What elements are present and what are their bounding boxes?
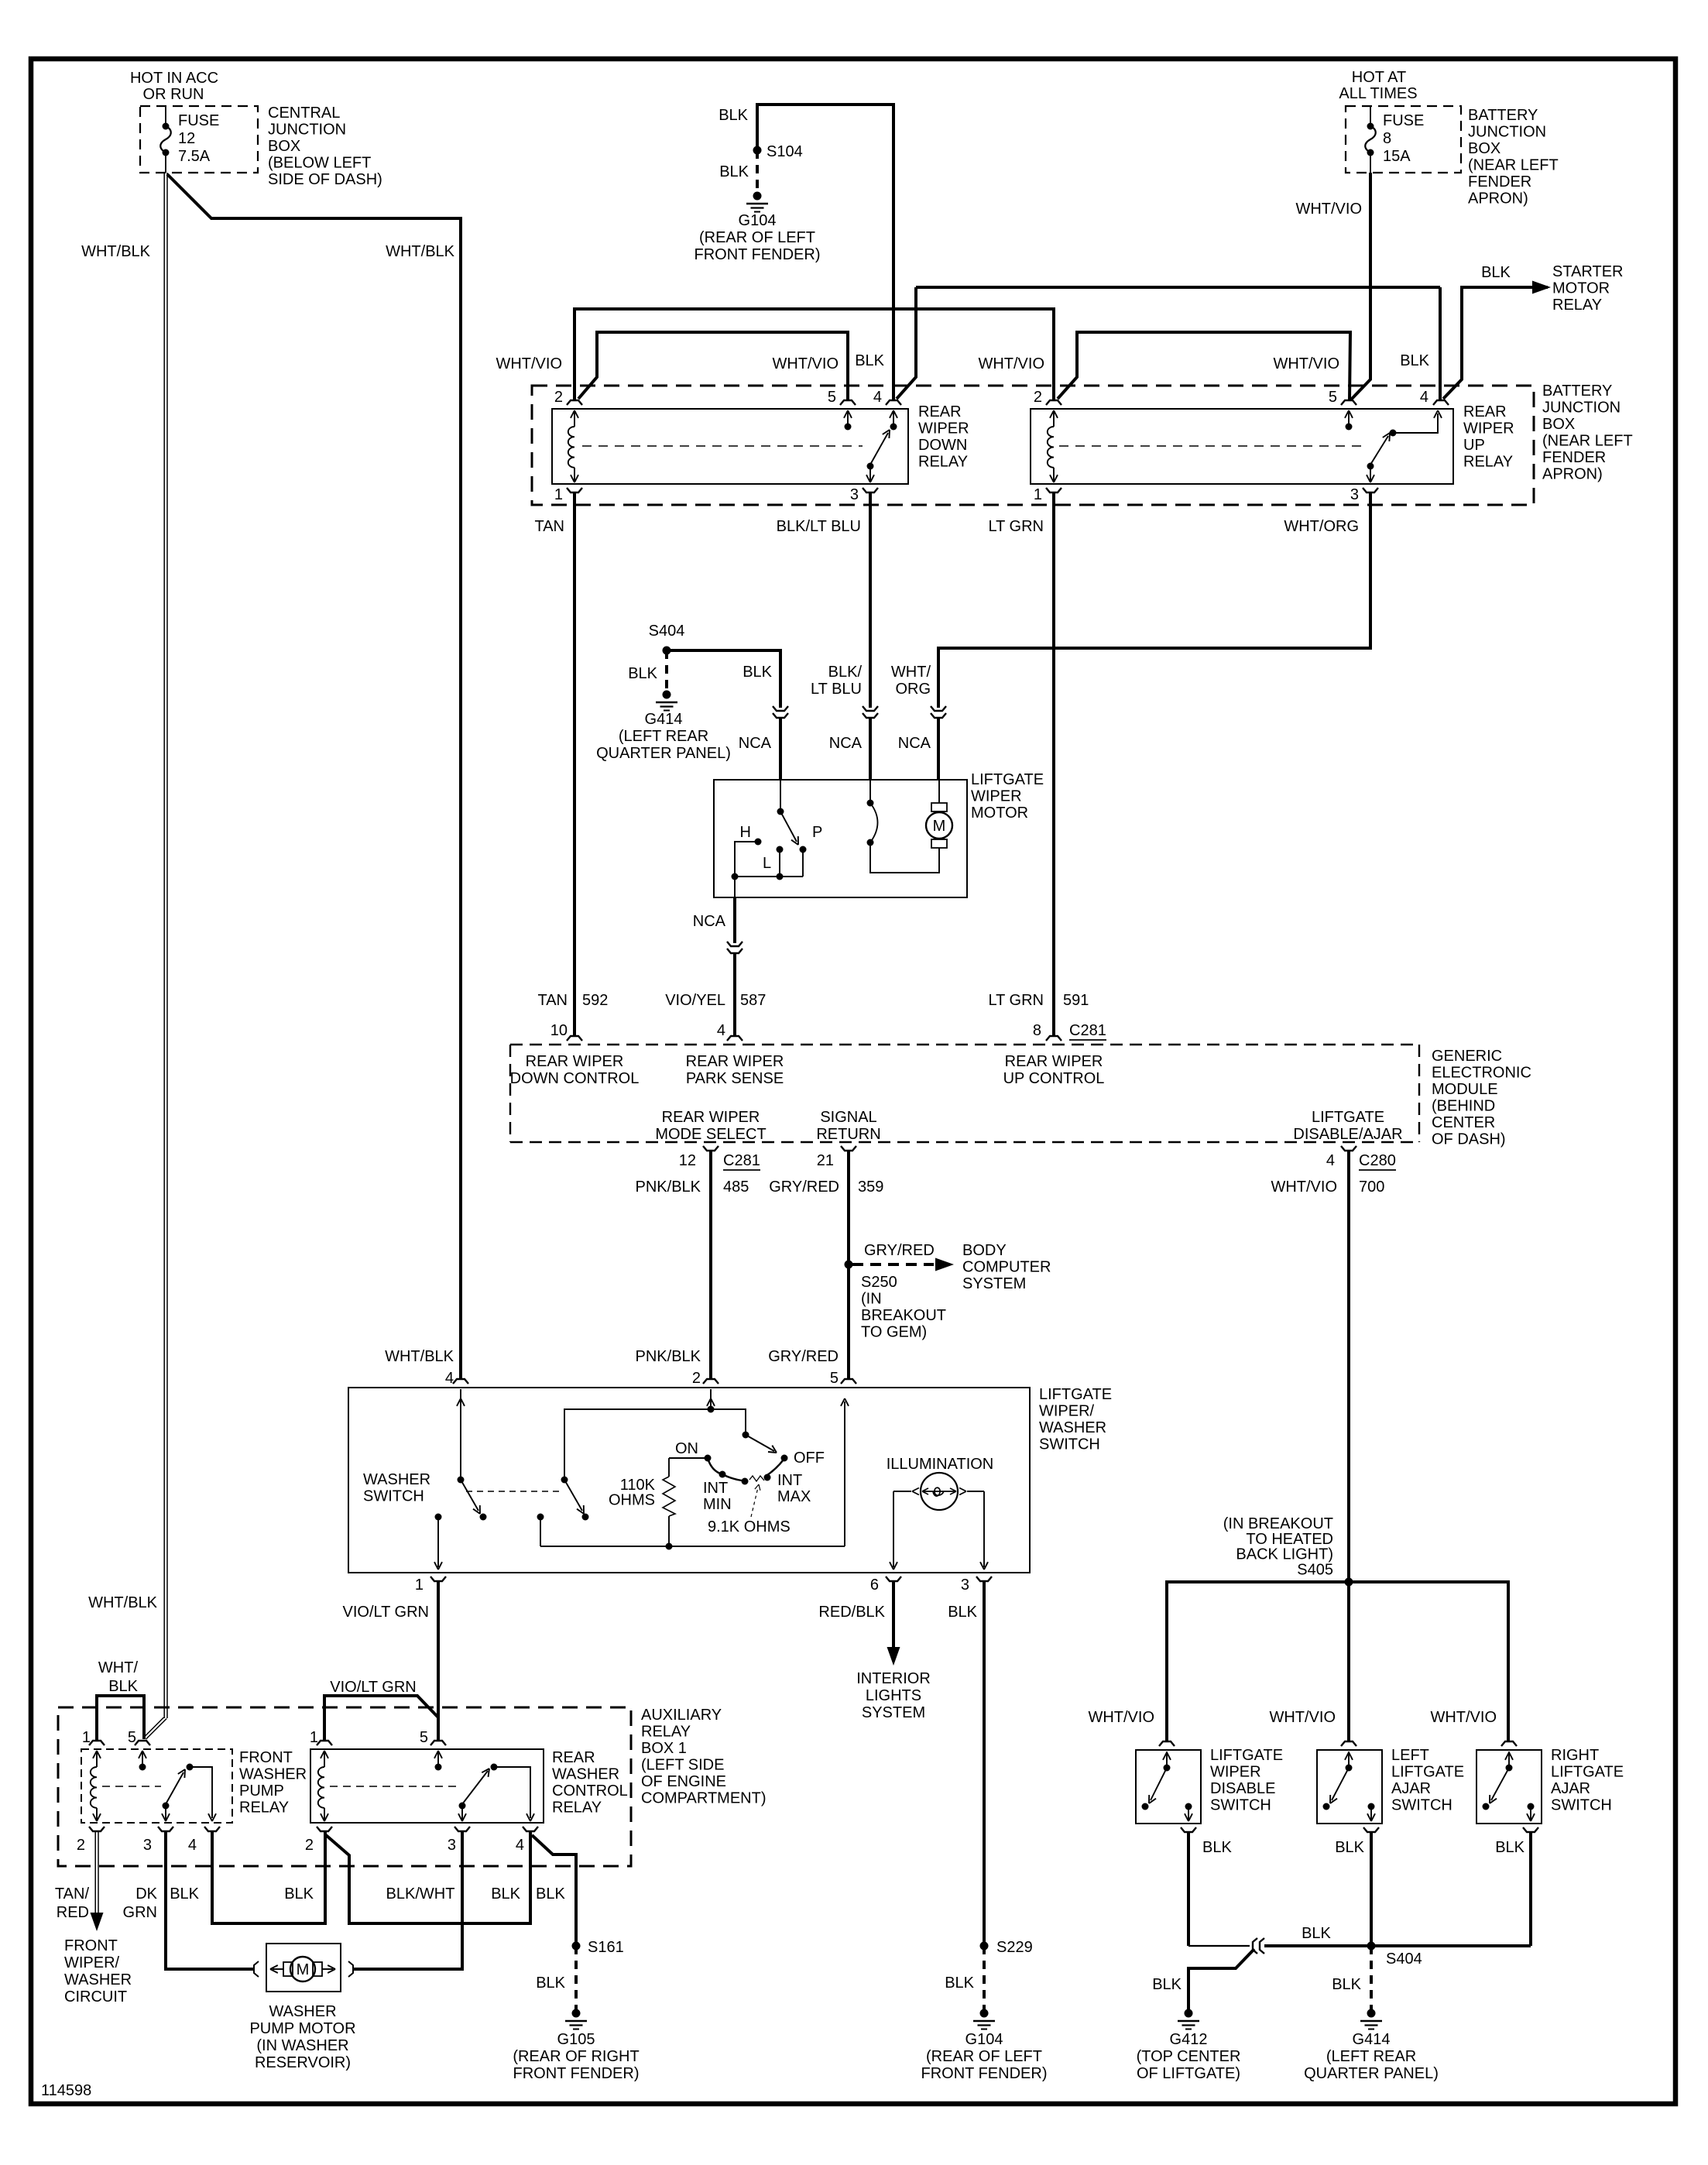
- svg-text:RED: RED: [57, 1904, 89, 1921]
- svg-text:(LEFT SIDE: (LEFT SIDE: [641, 1757, 724, 1774]
- svg-text:WHT/VIO: WHT/VIO: [1295, 201, 1362, 218]
- svg-text:AUXILIARY: AUXILIARY: [641, 1707, 722, 1724]
- svg-text:CIRCUIT: CIRCUIT: [64, 1988, 127, 2005]
- svg-text:SWITCH: SWITCH: [1391, 1797, 1452, 1814]
- svg-text:DOWN CONTROL: DOWN CONTROL: [510, 1070, 640, 1087]
- svg-text:PUMP MOTOR: PUMP MOTOR: [249, 2020, 355, 2037]
- svg-text:G105: G105: [557, 2031, 595, 2048]
- svg-text:QUARTER PANEL): QUARTER PANEL): [596, 745, 731, 762]
- svg-text:WHT/: WHT/: [98, 1659, 139, 1676]
- svg-text:3: 3: [143, 1837, 152, 1854]
- svg-text:NCA: NCA: [739, 735, 772, 752]
- svg-text:4: 4: [445, 1370, 454, 1387]
- svg-text:FUSE: FUSE: [1383, 112, 1424, 129]
- svg-text:2: 2: [77, 1837, 85, 1854]
- svg-text:BLK: BLK: [1481, 264, 1511, 281]
- svg-text:7.5A: 7.5A: [178, 148, 211, 165]
- svg-text:LIFTGATE: LIFTGATE: [1551, 1764, 1624, 1781]
- svg-text:OF ENGINE: OF ENGINE: [641, 1773, 726, 1790]
- svg-text:700: 700: [1359, 1179, 1384, 1196]
- svg-text:BLK: BLK: [1152, 1976, 1182, 1993]
- svg-text:APRON): APRON): [1468, 190, 1528, 208]
- svg-text:LIFTGATE: LIFTGATE: [1210, 1747, 1283, 1764]
- svg-text:WHT/: WHT/: [891, 664, 931, 681]
- svg-text:AJAR: AJAR: [1391, 1780, 1431, 1797]
- svg-text:TO HEATED: TO HEATED: [1246, 1531, 1333, 1548]
- svg-text:REAR: REAR: [552, 1749, 595, 1766]
- svg-text:BLK: BLK: [284, 1885, 314, 1903]
- svg-text:UP: UP: [1463, 437, 1485, 454]
- svg-text:C281: C281: [1069, 1022, 1106, 1039]
- svg-text:MOTOR: MOTOR: [971, 805, 1028, 822]
- svg-text:SIDE OF DASH): SIDE OF DASH): [268, 171, 382, 188]
- svg-text:8: 8: [1033, 1022, 1041, 1039]
- svg-text:OF LIFTGATE): OF LIFTGATE): [1137, 2065, 1240, 2082]
- svg-text:INTERIOR: INTERIOR: [856, 1670, 931, 1687]
- svg-text:C281: C281: [723, 1152, 760, 1169]
- svg-text:587: 587: [740, 992, 766, 1009]
- svg-text:(NEAR LEFT: (NEAR LEFT: [1468, 157, 1559, 174]
- svg-text:LIFTGATE: LIFTGATE: [1039, 1386, 1112, 1403]
- svg-text:C280: C280: [1359, 1152, 1396, 1169]
- svg-text:(BELOW LEFT: (BELOW LEFT: [268, 155, 371, 172]
- svg-text:OHMS: OHMS: [609, 1492, 655, 1509]
- svg-text:MODULE: MODULE: [1432, 1081, 1498, 1098]
- svg-text:S404: S404: [1386, 1951, 1422, 1968]
- svg-text:LIFTGATE: LIFTGATE: [1391, 1764, 1464, 1781]
- svg-text:BATTERY: BATTERY: [1468, 107, 1538, 124]
- svg-text:JUNCTION: JUNCTION: [1468, 124, 1546, 141]
- svg-text:2: 2: [305, 1837, 314, 1854]
- svg-text:(REAR OF LEFT: (REAR OF LEFT: [699, 229, 815, 246]
- svg-text:NCA: NCA: [693, 913, 726, 930]
- svg-text:PNK/BLK: PNK/BLK: [636, 1179, 701, 1196]
- svg-text:ILLUMINATION: ILLUMINATION: [887, 1456, 994, 1473]
- svg-text:OFF: OFF: [794, 1450, 825, 1467]
- svg-text:WHT/ORG: WHT/ORG: [1284, 518, 1359, 535]
- svg-text:GRN: GRN: [123, 1904, 157, 1921]
- svg-text:BOX: BOX: [1542, 416, 1575, 433]
- svg-text:3: 3: [961, 1577, 969, 1594]
- svg-text:RELAY: RELAY: [552, 1800, 602, 1817]
- svg-text:SIGNAL: SIGNAL: [820, 1109, 876, 1126]
- svg-text:WHT/BLK: WHT/BLK: [385, 1348, 454, 1365]
- svg-text:4: 4: [1326, 1152, 1335, 1169]
- svg-text:VIO/LT GRN: VIO/LT GRN: [330, 1679, 417, 1696]
- svg-text:BLK: BLK: [170, 1885, 199, 1903]
- svg-text:WHT/VIO: WHT/VIO: [1269, 1709, 1336, 1726]
- svg-text:UP CONTROL: UP CONTROL: [1003, 1070, 1105, 1087]
- svg-text:5: 5: [828, 389, 836, 406]
- svg-text:WASHER: WASHER: [239, 1766, 307, 1783]
- svg-text:REAR WIPER: REAR WIPER: [686, 1053, 784, 1070]
- svg-text:S250: S250: [861, 1274, 897, 1291]
- svg-text:4: 4: [188, 1837, 197, 1854]
- svg-text:CONTROL: CONTROL: [552, 1782, 628, 1800]
- svg-text:(IN BREAKOUT: (IN BREAKOUT: [1223, 1515, 1333, 1532]
- svg-text:BLK/WHT: BLK/WHT: [386, 1885, 455, 1903]
- svg-text:2: 2: [1034, 389, 1042, 406]
- svg-text:SWITCH: SWITCH: [363, 1488, 424, 1505]
- svg-text:4: 4: [516, 1837, 524, 1854]
- svg-text:4: 4: [1420, 389, 1428, 406]
- svg-text:LT GRN: LT GRN: [989, 518, 1044, 535]
- svg-text:114598: 114598: [41, 2082, 91, 2099]
- svg-text:WASHER: WASHER: [269, 2003, 336, 2020]
- svg-text:MIN: MIN: [703, 1496, 732, 1513]
- svg-text:12: 12: [178, 130, 195, 147]
- svg-text:COMPARTMENT): COMPARTMENT): [641, 1790, 766, 1807]
- svg-text:BLK: BLK: [1335, 1839, 1364, 1856]
- svg-text:SWITCH: SWITCH: [1039, 1436, 1100, 1453]
- svg-text:8: 8: [1383, 130, 1391, 147]
- svg-text:FENDER: FENDER: [1468, 173, 1531, 190]
- svg-text:WASHER: WASHER: [552, 1766, 619, 1783]
- svg-text:WASHER: WASHER: [363, 1471, 430, 1488]
- svg-text:DOWN: DOWN: [918, 437, 967, 454]
- svg-text:9.1K OHMS: 9.1K OHMS: [708, 1518, 791, 1535]
- svg-text:DISABLE: DISABLE: [1210, 1780, 1275, 1797]
- svg-text:BLK: BLK: [945, 1975, 974, 1992]
- svg-text:OR RUN: OR RUN: [143, 86, 204, 103]
- svg-text:(LEFT REAR: (LEFT REAR: [1326, 2048, 1416, 2065]
- svg-text:BLK/: BLK/: [828, 664, 863, 681]
- svg-text:BLK: BLK: [1202, 1839, 1232, 1856]
- svg-text:GRY/RED: GRY/RED: [768, 1348, 839, 1365]
- svg-text:QUARTER PANEL): QUARTER PANEL): [1304, 2065, 1439, 2082]
- svg-text:H: H: [740, 824, 751, 841]
- svg-text:NCA: NCA: [829, 735, 863, 752]
- svg-text:LT BLU: LT BLU: [811, 681, 862, 698]
- svg-text:M: M: [297, 1961, 310, 1978]
- svg-text:S404: S404: [649, 623, 685, 640]
- svg-text:(REAR OF LEFT: (REAR OF LEFT: [926, 2048, 1042, 2065]
- svg-text:5: 5: [420, 1729, 428, 1746]
- svg-text:JUNCTION: JUNCTION: [268, 122, 346, 139]
- svg-text:SYSTEM: SYSTEM: [862, 1704, 925, 1721]
- svg-text:VIO/LT GRN: VIO/LT GRN: [342, 1604, 429, 1621]
- svg-text:REAR WIPER: REAR WIPER: [526, 1053, 624, 1070]
- svg-text:BOX: BOX: [268, 138, 300, 155]
- svg-text:BLK: BLK: [491, 1885, 520, 1903]
- svg-text:591: 591: [1063, 992, 1089, 1009]
- svg-text:RELAY: RELAY: [1463, 454, 1513, 471]
- svg-text:APRON): APRON): [1542, 466, 1603, 483]
- svg-text:RETURN: RETURN: [816, 1126, 880, 1143]
- svg-text:REAR: REAR: [918, 403, 962, 420]
- svg-text:JUNCTION: JUNCTION: [1542, 400, 1621, 417]
- svg-text:ORG: ORG: [895, 681, 931, 698]
- svg-text:L: L: [763, 855, 771, 872]
- svg-text:WIPER: WIPER: [1210, 1764, 1261, 1781]
- svg-text:TAN/: TAN/: [55, 1885, 90, 1903]
- svg-text:WHT/VIO: WHT/VIO: [1430, 1709, 1497, 1726]
- svg-text:BLK/LT BLU: BLK/LT BLU: [777, 518, 861, 535]
- svg-text:FRONT FENDER): FRONT FENDER): [695, 246, 821, 263]
- svg-text:VIO/YEL: VIO/YEL: [665, 992, 725, 1009]
- svg-text:1: 1: [554, 486, 563, 503]
- svg-text:PARK SENSE: PARK SENSE: [686, 1070, 784, 1087]
- svg-text:DISABLE/AJAR: DISABLE/AJAR: [1293, 1126, 1402, 1143]
- svg-text:RESERVOIR): RESERVOIR): [255, 2054, 351, 2071]
- svg-text:SWITCH: SWITCH: [1551, 1797, 1612, 1814]
- svg-text:485: 485: [723, 1179, 749, 1196]
- svg-text:STARTER: STARTER: [1552, 263, 1624, 280]
- svg-text:RIGHT: RIGHT: [1551, 1747, 1599, 1764]
- svg-text:RELAY: RELAY: [918, 454, 968, 471]
- svg-text:WHT/VIO: WHT/VIO: [1271, 1179, 1337, 1196]
- svg-text:4: 4: [717, 1022, 725, 1039]
- svg-text:5: 5: [830, 1370, 839, 1387]
- svg-text:REAR: REAR: [1463, 403, 1507, 420]
- svg-text:COMPUTER: COMPUTER: [962, 1259, 1051, 1276]
- svg-text:GRY/RED: GRY/RED: [864, 1242, 935, 1259]
- svg-text:BLK: BLK: [536, 1885, 565, 1903]
- svg-text:BACK LIGHT): BACK LIGHT): [1236, 1546, 1333, 1563]
- svg-text:1: 1: [415, 1577, 424, 1594]
- svg-text:WHT/BLK: WHT/BLK: [88, 1594, 158, 1611]
- svg-text:G104: G104: [739, 212, 777, 229]
- svg-text:BODY: BODY: [962, 1242, 1007, 1259]
- svg-text:TO GEM): TO GEM): [861, 1324, 927, 1341]
- svg-text:S104: S104: [767, 143, 803, 160]
- svg-text:359: 359: [858, 1179, 883, 1196]
- svg-text:S229: S229: [996, 1939, 1033, 1956]
- svg-text:G414: G414: [1353, 2031, 1391, 2048]
- svg-text:6: 6: [870, 1577, 879, 1594]
- svg-text:DK: DK: [135, 1885, 157, 1903]
- svg-text:INT: INT: [703, 1480, 728, 1497]
- svg-text:RELAY: RELAY: [1552, 297, 1602, 314]
- svg-text:M: M: [933, 818, 946, 835]
- svg-text:LIFTGATE: LIFTGATE: [1312, 1109, 1384, 1126]
- svg-text:OF DASH): OF DASH): [1432, 1131, 1506, 1148]
- svg-text:WHT/VIO: WHT/VIO: [978, 355, 1044, 372]
- svg-text:FRONT FENDER): FRONT FENDER): [921, 2065, 1048, 2082]
- svg-text:RED/BLK: RED/BLK: [818, 1604, 885, 1621]
- svg-text:HOT AT: HOT AT: [1352, 69, 1406, 86]
- svg-text:WIPER: WIPER: [918, 420, 969, 437]
- svg-text:FRONT FENDER): FRONT FENDER): [513, 2065, 640, 2082]
- svg-text:BOX: BOX: [1468, 140, 1501, 157]
- svg-text:PNK/BLK: PNK/BLK: [636, 1348, 701, 1365]
- svg-text:G104: G104: [965, 2031, 1003, 2048]
- svg-text:BLK: BLK: [948, 1604, 977, 1621]
- svg-text:WIPER/: WIPER/: [64, 1954, 120, 1971]
- svg-text:PUMP: PUMP: [239, 1782, 284, 1800]
- svg-text:WHT/BLK: WHT/BLK: [81, 243, 151, 260]
- svg-text:S405: S405: [1297, 1561, 1333, 1578]
- svg-text:5: 5: [1329, 389, 1337, 406]
- svg-text:CENTER: CENTER: [1432, 1114, 1495, 1131]
- svg-text:WHT/VIO: WHT/VIO: [496, 355, 562, 372]
- svg-text:LT GRN: LT GRN: [989, 992, 1044, 1009]
- svg-text:SYSTEM: SYSTEM: [962, 1275, 1026, 1292]
- svg-text:WASHER: WASHER: [64, 1971, 132, 1988]
- svg-text:NCA: NCA: [898, 735, 931, 752]
- svg-text:WHT/BLK: WHT/BLK: [386, 243, 455, 260]
- svg-text:HOT IN ACC: HOT IN ACC: [130, 70, 218, 87]
- svg-text:BLK: BLK: [1495, 1839, 1525, 1856]
- svg-text:BLK: BLK: [1332, 1976, 1361, 1993]
- svg-text:15A: 15A: [1383, 148, 1411, 165]
- svg-text:G412: G412: [1170, 2031, 1208, 2048]
- svg-text:BLK: BLK: [719, 163, 749, 180]
- svg-text:BLK: BLK: [855, 352, 884, 369]
- svg-text:MOTOR: MOTOR: [1552, 280, 1610, 297]
- svg-text:FRONT: FRONT: [64, 1937, 118, 1954]
- svg-text:TAN: TAN: [534, 518, 564, 535]
- svg-text:G414: G414: [645, 711, 683, 728]
- svg-text:(NEAR LEFT: (NEAR LEFT: [1542, 433, 1633, 450]
- svg-text:MODE SELECT: MODE SELECT: [655, 1126, 766, 1143]
- svg-text:BLK: BLK: [1400, 352, 1429, 369]
- svg-text:3: 3: [448, 1837, 456, 1854]
- svg-text:3: 3: [1350, 486, 1359, 503]
- svg-text:BLK: BLK: [719, 107, 748, 124]
- svg-text:12: 12: [679, 1152, 696, 1169]
- svg-text:BLK: BLK: [743, 664, 772, 681]
- svg-text:ON: ON: [675, 1440, 698, 1457]
- svg-text:(LEFT REAR: (LEFT REAR: [619, 728, 708, 745]
- svg-text:1: 1: [82, 1729, 91, 1746]
- svg-text:WHT/VIO: WHT/VIO: [1273, 355, 1339, 372]
- svg-text:LIGHTS: LIGHTS: [866, 1687, 921, 1704]
- svg-text:REAR WIPER: REAR WIPER: [1005, 1053, 1103, 1070]
- svg-text:WHT/VIO: WHT/VIO: [1088, 1709, 1154, 1726]
- svg-text:2: 2: [554, 389, 563, 406]
- svg-text:S161: S161: [588, 1939, 624, 1956]
- svg-text:WIPER: WIPER: [1463, 420, 1514, 437]
- svg-text:10: 10: [550, 1022, 568, 1039]
- svg-text:ALL TIMES: ALL TIMES: [1339, 85, 1417, 102]
- svg-text:592: 592: [582, 992, 608, 1009]
- svg-text:RELAY: RELAY: [239, 1800, 289, 1817]
- svg-text:WIPER/: WIPER/: [1039, 1403, 1095, 1420]
- svg-text:(TOP CENTER: (TOP CENTER: [1137, 2048, 1241, 2065]
- svg-text:3: 3: [850, 486, 859, 503]
- svg-text:(REAR OF RIGHT: (REAR OF RIGHT: [513, 2048, 639, 2065]
- svg-text:1: 1: [310, 1729, 318, 1746]
- svg-text:FENDER: FENDER: [1542, 449, 1606, 466]
- svg-text:AJAR: AJAR: [1551, 1780, 1590, 1797]
- svg-text:2: 2: [692, 1370, 701, 1387]
- svg-text:GRY/RED: GRY/RED: [769, 1179, 839, 1196]
- svg-text:LEFT: LEFT: [1391, 1747, 1429, 1764]
- svg-text:WHT/VIO: WHT/VIO: [772, 355, 839, 372]
- svg-text:BATTERY: BATTERY: [1542, 383, 1612, 400]
- svg-text:FRONT: FRONT: [239, 1749, 293, 1766]
- svg-text:BREAKOUT: BREAKOUT: [861, 1307, 946, 1324]
- svg-text:21: 21: [817, 1152, 834, 1169]
- svg-text:BLK: BLK: [1302, 1925, 1331, 1942]
- svg-text:TAN: TAN: [537, 992, 568, 1009]
- svg-text:WASHER: WASHER: [1039, 1419, 1106, 1436]
- svg-text:BLK: BLK: [536, 1975, 565, 1992]
- svg-text:FUSE: FUSE: [178, 112, 219, 129]
- svg-text:SWITCH: SWITCH: [1210, 1797, 1271, 1814]
- svg-text:CENTRAL: CENTRAL: [268, 105, 340, 122]
- svg-text:GENERIC: GENERIC: [1432, 1048, 1502, 1065]
- svg-text:BOX 1: BOX 1: [641, 1740, 687, 1757]
- svg-text:MAX: MAX: [777, 1488, 811, 1505]
- svg-text:4: 4: [873, 389, 882, 406]
- svg-text:(IN WASHER: (IN WASHER: [256, 2037, 348, 2054]
- svg-text:BLK: BLK: [108, 1678, 138, 1695]
- svg-text:LIFTGATE: LIFTGATE: [971, 771, 1044, 788]
- svg-text:WIPER: WIPER: [971, 788, 1022, 805]
- svg-text:P: P: [812, 824, 822, 841]
- svg-text:RELAY: RELAY: [641, 1724, 691, 1741]
- svg-text:BLK: BLK: [628, 665, 657, 682]
- svg-text:(IN: (IN: [861, 1291, 882, 1308]
- svg-text:INT: INT: [777, 1472, 802, 1489]
- svg-text:1: 1: [1034, 486, 1042, 503]
- svg-text:REAR WIPER: REAR WIPER: [662, 1109, 760, 1126]
- svg-text:5: 5: [128, 1729, 136, 1746]
- svg-text:(BEHIND: (BEHIND: [1432, 1098, 1495, 1115]
- svg-text:ELECTRONIC: ELECTRONIC: [1432, 1065, 1531, 1082]
